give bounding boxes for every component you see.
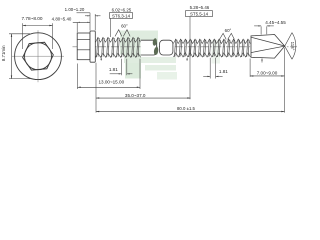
label box ST5.5-14: [186, 11, 213, 17]
svg-text:1.00~1.20: 1.00~1.20: [65, 7, 85, 12]
small arrow under drill point: [261, 58, 262, 62]
watermark logo (light green): [120, 31, 220, 80]
thread section 2 ST5.5-14: [173, 39, 250, 57]
extension line through thread2 (35.0~37.0 right / ST5.5 leader): [189, 17, 191, 100]
svg-text:6.02~6.25: 6.02~6.25: [112, 7, 132, 12]
drill point body: [251, 35, 285, 59]
label 4.45~4.55 (drill flute): [254, 20, 286, 35]
dimension 80.0 +/-1.5 overall length: [96, 48, 285, 113]
dimension 7.00~9.00 drill point length: [250, 59, 284, 77]
svg-text:7.78~8.00: 7.78~8.00: [22, 16, 43, 21]
svg-text:ST6.3-14: ST6.3-14: [112, 13, 131, 18]
dimension 1.81 thread2 pitch: [203, 58, 228, 79]
hex head end view centerlines: [12, 30, 64, 82]
dimension 13.00~15.00: [78, 59, 141, 89]
small arrow at thread2 full-thread mark: [186, 58, 187, 61]
svg-text:13.00~15.00: 13.00~15.00: [98, 80, 124, 85]
weld capsule segment: [160, 40, 173, 55]
svg-text:ST5.5-14: ST5.5-14: [190, 12, 209, 17]
60 deg thread2 angle: [220, 28, 235, 40]
dimension 1.81 thread1 pitch: [109, 59, 133, 76]
dimension 8.71min (head dia, vertical): [1, 34, 30, 79]
hex head side view: [77, 33, 90, 60]
label 4.80~5.40 (head height): [52, 17, 90, 33]
svg-text:1.81: 1.81: [109, 67, 118, 72]
svg-text:4.80~5.40: 4.80~5.40: [52, 17, 72, 22]
thread section 1 ST6.3-14: [96, 37, 141, 57]
svg-text:35.0~37.0: 35.0~37.0: [125, 93, 146, 98]
dimension 7.78~8.00 (hex across flats): [22, 16, 53, 49]
thread runout marks (dark): [152, 38, 159, 55]
hex head end view: inner circle: [25, 43, 52, 70]
small arrow at thread1 full-thread mark: [101, 57, 102, 60]
60 deg thread1 angle: [115, 24, 130, 37]
svg-text:1.81: 1.81: [219, 69, 228, 74]
svg-text:118°: 118°: [290, 42, 295, 51]
svg-text:60°: 60°: [225, 28, 232, 33]
shank segment with thread runout: [141, 40, 157, 55]
svg-text:60°: 60°: [121, 24, 128, 29]
head flange washer: [90, 31, 95, 62]
label 1.00~1.20 (flange thickness): [65, 7, 101, 30]
label box ST6.3-14: [110, 13, 133, 37]
118 degree point angle annotation: [285, 33, 296, 60]
hex head end view: outer flange circle: [15, 33, 62, 80]
svg-text:5.28~5.46: 5.28~5.46: [190, 5, 210, 10]
svg-text:8.71min: 8.71min: [1, 45, 6, 61]
hex head end view: hexagon (across flats): [21, 42, 54, 71]
dimension 35.0~37.0: [96, 63, 191, 113]
svg-text:80.0 ±1.5: 80.0 ±1.5: [177, 106, 195, 111]
screw centerline: [73, 46, 298, 48]
svg-text:4.45~4.55: 4.45~4.55: [265, 20, 286, 25]
svg-text:7.00~9.00: 7.00~9.00: [257, 70, 278, 75]
